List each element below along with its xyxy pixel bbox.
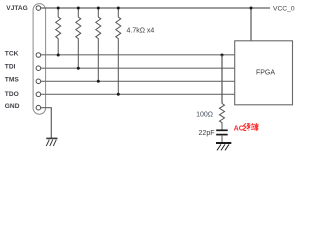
resistor R3 4.7k pull-up	[96, 8, 101, 81]
junction dot rail-R1	[57, 7, 60, 10]
glyph 端	[251, 123, 259, 131]
svg-text:FPGA: FPGA	[256, 70, 275, 77]
resistor R5 100 ohm	[220, 104, 225, 130]
wire termination vertical	[221, 55, 223, 104]
svg-text:TDO: TDO	[5, 91, 19, 98]
resistor R1 4.7k pull-up	[56, 8, 61, 55]
label AC termination (red, hand-drawn CJK 终端)	[234, 123, 259, 132]
pin VJTAG	[36, 6, 41, 11]
pin GND	[36, 105, 41, 110]
ground (left, connector GND)	[46, 138, 57, 146]
wire TDI	[41, 67, 236, 69]
pin TCK	[36, 53, 41, 58]
wire VCC_0 branch	[250, 8, 252, 41]
pin TDI	[36, 66, 41, 71]
junction dot rail-R2	[77, 7, 80, 10]
svg-text:100Ω: 100Ω	[196, 111, 213, 118]
junction dot R1-TCK	[57, 54, 60, 57]
svg-text:TMS: TMS	[5, 76, 20, 83]
capacitor C1 22pF	[216, 129, 228, 131]
wire TDO	[41, 93, 236, 95]
svg-text:TCK: TCK	[5, 50, 19, 57]
svg-text:VJTAG: VJTAG	[6, 5, 28, 12]
pin TDO	[36, 92, 41, 97]
junction dot TCK-termination	[221, 54, 224, 57]
svg-text:GND: GND	[5, 103, 20, 110]
connector J1	[33, 4, 46, 115]
junction dot rail-R3	[97, 7, 100, 10]
wire TMS	[41, 80, 236, 82]
junction dot rail-VCC	[250, 7, 253, 10]
svg-text:AC: AC	[234, 125, 244, 133]
ground (right, AC termination)	[216, 143, 231, 150]
svg-text:22pF: 22pF	[199, 130, 215, 137]
svg-text:TDI: TDI	[5, 64, 16, 71]
glyph 终	[243, 123, 250, 130]
FPGA U1	[235, 41, 293, 105]
svg-text:4.7kΩ x4: 4.7kΩ x4	[127, 27, 155, 34]
resistor R2 4.7k pull-up	[76, 8, 81, 68]
junction dot R2-TDI	[77, 67, 80, 70]
junction dot R4-TDO	[117, 93, 120, 96]
svg-text:VCC_0: VCC_0	[273, 5, 295, 12]
junction dot R3-TMS	[97, 80, 100, 83]
wire GND to ground	[41, 108, 52, 139]
resistor R4 4.7k pull-up	[116, 8, 121, 94]
pin TMS	[36, 79, 41, 84]
junction dot rail-R4	[117, 7, 120, 10]
wire TCK	[41, 54, 236, 56]
wire VJTAG rail	[41, 7, 271, 9]
